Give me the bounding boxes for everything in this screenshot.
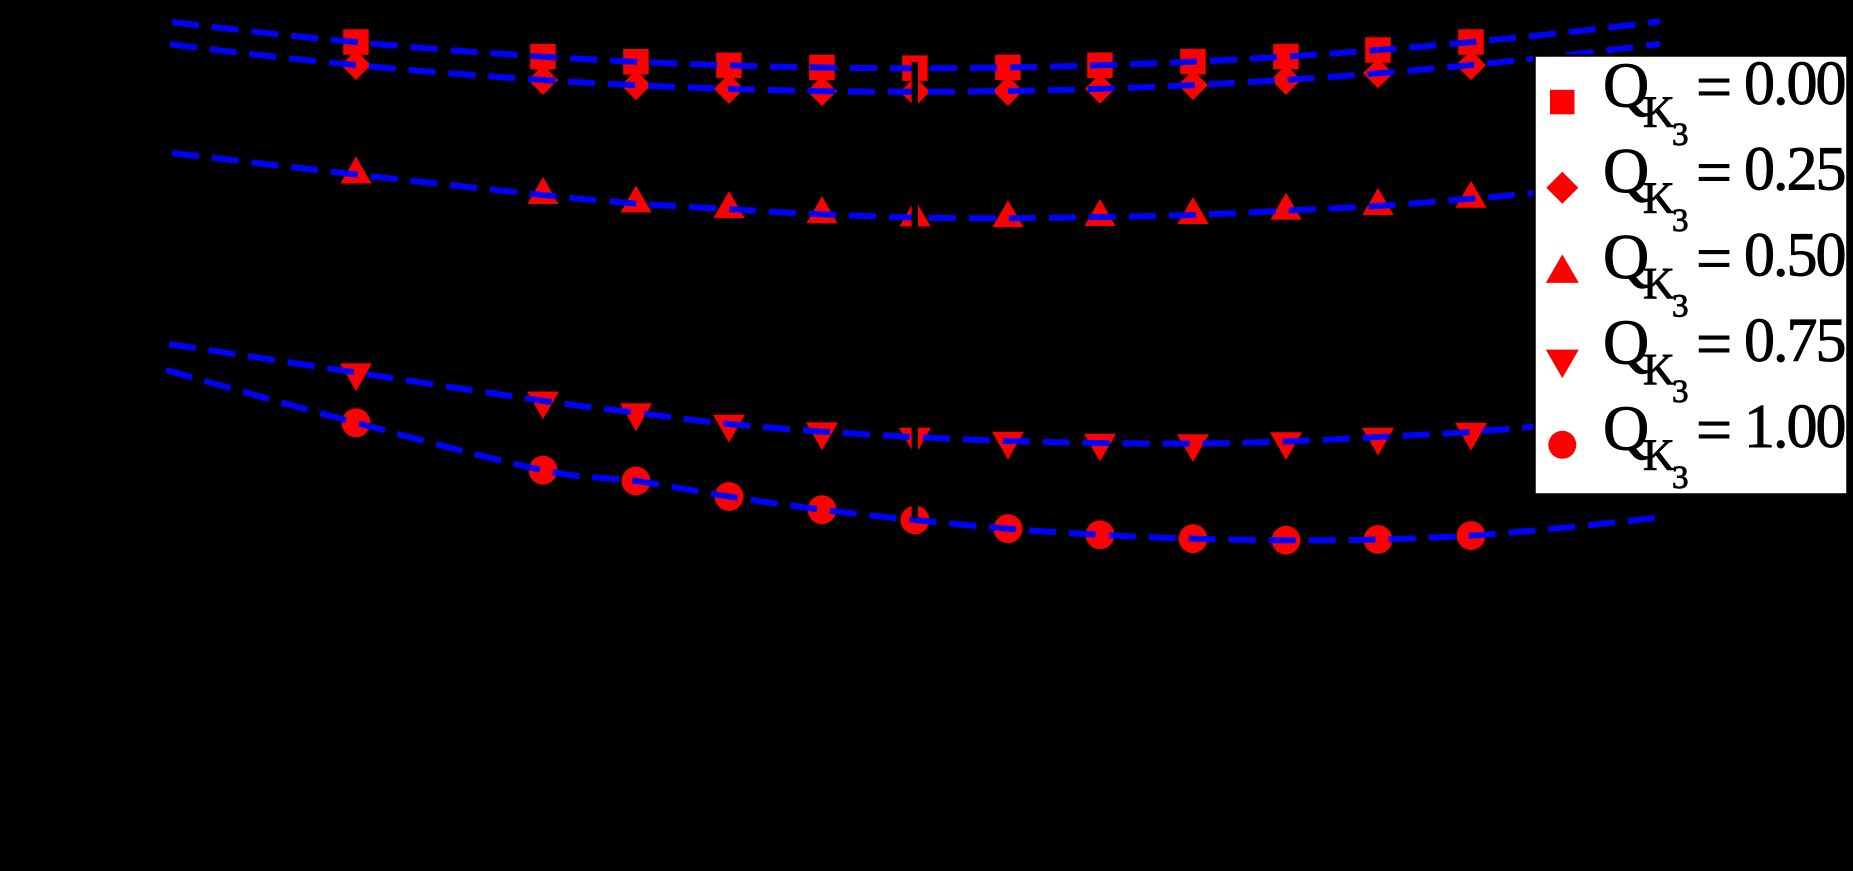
legend marker circle (Q_K3 = 1.00)	[1548, 431, 1576, 459]
svg-text:1.00: 1.00	[1744, 393, 1845, 461]
svg-text:=: =	[1696, 394, 1732, 465]
blue dashed fit curve for Q_K3 = 0.25	[170, 44, 1660, 92]
svg-text:K: K	[1643, 259, 1675, 308]
svg-text:K: K	[1643, 431, 1675, 480]
svg-text:K: K	[1643, 88, 1675, 137]
legend label Q_K3 = 1.00	[1603, 392, 1845, 496]
blue dashed fit curve for Q_K3 = 0.75	[169, 344, 1660, 444]
svg-text:=: =	[1696, 222, 1732, 293]
blue dashed fit curve for Q_K3 = 0.50	[172, 153, 1660, 218]
svg-text:=: =	[1696, 137, 1732, 208]
svg-text:=: =	[1696, 51, 1732, 122]
data markers: circles, series Q_K3 = 1.00	[342, 408, 1486, 554]
svg-text:3: 3	[1672, 203, 1689, 239]
data markers: triangles-down, series Q_K3 = 0.75	[340, 363, 1487, 462]
svg-text:0.25: 0.25	[1744, 136, 1845, 204]
svg-text:3: 3	[1672, 374, 1689, 410]
svg-text:K: K	[1643, 345, 1675, 394]
black vertical marker line at x = 915	[912, 62, 918, 518]
blue dashed fit curve for Q_K3 = 0.00	[172, 21, 1660, 68]
legend label Q_K3 = 0.75	[1603, 307, 1845, 411]
legend marker triangle-up (Q_K3 = 0.50)	[1546, 254, 1579, 283]
blue dashed fit curve for Q_K3 = 1.00	[166, 370, 1660, 540]
legend label Q_K3 = 0.25	[1603, 135, 1845, 239]
svg-text:3: 3	[1672, 117, 1689, 153]
svg-text:0.00: 0.00	[1744, 50, 1845, 118]
svg-text:=: =	[1696, 308, 1732, 379]
svg-text:3: 3	[1672, 460, 1689, 496]
data markers: squares, series Q_K3 = 0.00	[343, 29, 1484, 81]
legend label Q_K3 = 0.00	[1603, 50, 1845, 154]
svg-text:0.50: 0.50	[1744, 221, 1845, 289]
legend marker triangle-down (Q_K3 = 0.75)	[1546, 350, 1579, 379]
data markers: triangles-up, series Q_K3 = 0.50	[340, 157, 1486, 228]
svg-text:3: 3	[1672, 289, 1689, 325]
legend label Q_K3 = 0.50	[1603, 221, 1845, 325]
svg-text:K: K	[1643, 173, 1675, 222]
legend box	[1535, 56, 1848, 495]
svg-text:0.75: 0.75	[1744, 307, 1845, 375]
legend marker square (Q_K3 = 0.00)	[1550, 90, 1575, 115]
legend marker diamond (Q_K3 = 0.25)	[1546, 172, 1578, 204]
data markers: diamonds, series Q_K3 = 0.25	[341, 50, 1486, 107]
